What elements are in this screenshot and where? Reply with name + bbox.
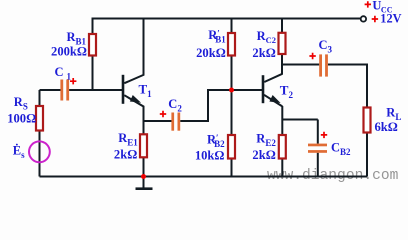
svg-text:2kΩ: 2kΩ xyxy=(114,148,137,162)
svg-text:12V: 12V xyxy=(380,12,401,26)
wire: C1 row (source to T1 base) xyxy=(40,89,123,91)
plus 12V xyxy=(372,16,378,22)
svg-text:200kΩ: 200kΩ xyxy=(51,45,87,59)
VCC terminal xyxy=(361,16,366,21)
svg-text:2kΩ: 2kΩ xyxy=(252,148,275,162)
wire: top VCC rail xyxy=(93,19,361,35)
plus C3 xyxy=(309,53,315,59)
transistor T1 xyxy=(122,75,125,104)
resistor RC2 2k xyxy=(279,33,286,54)
wire: C2 row from T1 emitter xyxy=(144,90,263,121)
capacitor C1 xyxy=(60,80,63,101)
svg-text:100Ω: 100Ω xyxy=(7,111,36,125)
resistor RE2 2k xyxy=(279,135,286,159)
wire: left column through RS and Es xyxy=(39,90,41,177)
resistor RB1p 20k xyxy=(228,33,235,56)
transistor T2 xyxy=(262,75,265,103)
resistor RL 6k xyxy=(364,108,371,133)
wire: T1 collector to rail xyxy=(124,19,143,84)
wire: RE1 bottom to ground rail xyxy=(143,157,145,176)
wire: CB2 column xyxy=(317,120,319,177)
ground symbol xyxy=(143,177,145,188)
capacitor CB2 xyxy=(308,144,327,147)
wire: T2 emitter down to RE2 / CB2 branch xyxy=(264,95,318,177)
wire: RC2 column / T2 collector / C3 branch xyxy=(264,19,319,83)
plus UCC xyxy=(365,1,371,7)
resistor RB2p 10k xyxy=(228,135,235,159)
source Es circle xyxy=(29,141,50,162)
junction node: T2 base / divider xyxy=(229,88,234,93)
capacitor C3 xyxy=(319,54,322,76)
svg-text:10kΩ: 10kΩ xyxy=(195,148,225,162)
wire: T1 emitter down to RE1 xyxy=(124,95,143,134)
svg-text:2kΩ: 2kΩ xyxy=(252,46,275,60)
resistor RB1 200k xyxy=(89,34,96,56)
svg-text:6kΩ: 6kΩ xyxy=(375,120,398,134)
wire: RB1 bottom to C1 row junction xyxy=(92,56,94,91)
junction node: ground rail xyxy=(141,174,146,179)
resistor RS 100 xyxy=(36,106,43,131)
wire: bottom ground rail xyxy=(40,176,368,178)
capacitor C2 xyxy=(171,113,174,131)
plus CB2 xyxy=(321,132,327,138)
svg-text:20kΩ: 20kΩ xyxy=(196,46,226,60)
resistor RE1 2k xyxy=(140,134,147,157)
plus C2 xyxy=(160,111,166,117)
plus C1 xyxy=(70,78,76,84)
wire: RB1p / RB2p divider column xyxy=(231,19,233,177)
wire: C3 to RL column xyxy=(328,65,367,177)
